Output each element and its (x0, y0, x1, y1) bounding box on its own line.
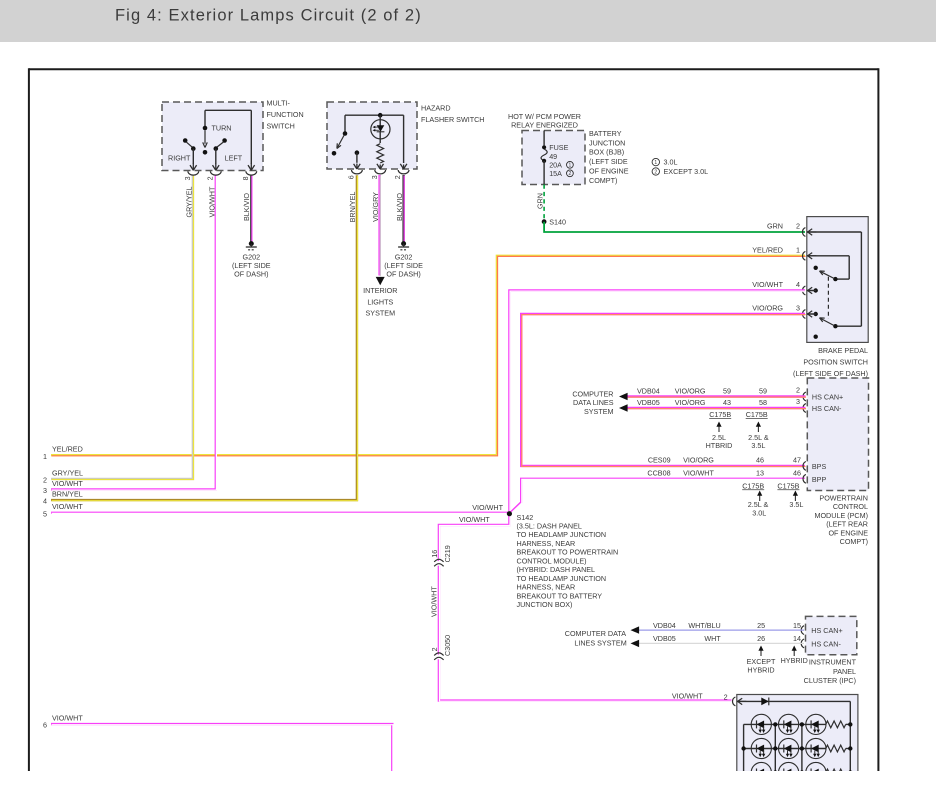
svg-text:LIGHTS: LIGHTS (367, 297, 393, 306)
svg-text:OF ENGINE: OF ENGINE (589, 167, 629, 176)
svg-text:SYSTEM: SYSTEM (584, 407, 614, 416)
svg-text:VIO/WHT: VIO/WHT (52, 479, 83, 488)
svg-text:JUNCTION BOX): JUNCTION BOX) (517, 600, 573, 609)
svg-text:DATA LINES: DATA LINES (573, 398, 614, 407)
svg-text:TURN: TURN (212, 124, 232, 133)
svg-text:2: 2 (430, 647, 439, 651)
svg-text:2: 2 (205, 176, 214, 180)
svg-text:1: 1 (796, 245, 800, 254)
svg-text:WHT: WHT (704, 634, 721, 643)
svg-text:Fig 4: Exterior Lamps Circuit: Fig 4: Exterior Lamps Circuit (2 of 2) (115, 7, 422, 25)
svg-text:BPP: BPP (812, 475, 827, 484)
svg-text:(LEFT SIDE: (LEFT SIDE (589, 157, 628, 166)
svg-text:VIO/ORG: VIO/ORG (675, 398, 706, 407)
svg-text:VIO/WHT: VIO/WHT (430, 586, 439, 617)
svg-text:YEL/RED: YEL/RED (752, 245, 783, 254)
svg-text:4: 4 (43, 497, 47, 506)
svg-text:VDB05: VDB05 (653, 634, 676, 643)
svg-text:14: 14 (793, 634, 801, 643)
svg-text:SWITCH: SWITCH (267, 122, 295, 131)
svg-text:3.0L: 3.0L (752, 509, 766, 518)
svg-text:S140: S140 (549, 218, 566, 227)
svg-text:HARNESS, NEAR: HARNESS, NEAR (517, 583, 576, 592)
svg-text:2: 2 (43, 476, 47, 485)
svg-text:C175B: C175B (746, 410, 768, 419)
svg-text:15A: 15A (549, 169, 562, 178)
svg-text:4: 4 (796, 280, 800, 289)
svg-text:INTERIOR: INTERIOR (363, 286, 397, 295)
svg-text:JUNCTION: JUNCTION (589, 138, 625, 147)
svg-text:2: 2 (393, 175, 402, 179)
svg-text:2: 2 (796, 386, 800, 395)
svg-text:HS CAN+: HS CAN+ (812, 393, 843, 402)
svg-text:MODULE (PCM): MODULE (PCM) (814, 511, 868, 520)
svg-text:16: 16 (430, 550, 439, 558)
svg-text:VIO/ORG: VIO/ORG (683, 456, 714, 465)
svg-text:3.0L: 3.0L (664, 158, 678, 167)
svg-text:BREAKOUT TO BATTERY: BREAKOUT TO BATTERY (517, 591, 603, 600)
svg-text:CONTROL MODULE): CONTROL MODULE) (517, 556, 587, 565)
svg-text:PANEL: PANEL (833, 667, 856, 676)
svg-text:RELAY ENERGIZED: RELAY ENERGIZED (511, 120, 578, 129)
svg-text:BRN/YEL: BRN/YEL (348, 192, 357, 223)
svg-text:VIO/WHT: VIO/WHT (672, 691, 703, 700)
svg-text:3: 3 (370, 175, 379, 179)
svg-text:VDB05: VDB05 (637, 398, 660, 407)
svg-text:SYSTEM: SYSTEM (366, 309, 396, 318)
svg-text:VIO/WHT: VIO/WHT (683, 469, 714, 478)
svg-text:COMPT): COMPT) (840, 537, 868, 546)
svg-text:TO HEADLAMP JUNCTION: TO HEADLAMP JUNCTION (517, 574, 607, 583)
svg-text:HARNESS, NEAR: HARNESS, NEAR (517, 539, 576, 548)
svg-text:INSTRUMENT: INSTRUMENT (809, 658, 857, 667)
svg-text:3.5L: 3.5L (751, 441, 765, 450)
svg-text:VIO/WHT: VIO/WHT (52, 714, 83, 723)
svg-text:46: 46 (793, 469, 801, 478)
svg-text:CLUSTER (IPC): CLUSTER (IPC) (804, 676, 856, 685)
svg-text:C175B: C175B (777, 481, 799, 490)
svg-text:1: 1 (43, 452, 47, 461)
svg-text:HYBRID: HYBRID (747, 665, 774, 674)
svg-text:LEFT: LEFT (225, 153, 243, 162)
svg-text:2: 2 (796, 222, 800, 231)
svg-text:GRY/YEL: GRY/YEL (184, 186, 193, 217)
svg-text:HTBRID: HTBRID (706, 441, 733, 450)
svg-text:COMPT): COMPT) (589, 176, 617, 185)
svg-text:BOX (BJB): BOX (BJB) (589, 148, 624, 157)
svg-text:C175B: C175B (709, 410, 731, 419)
svg-text:FUSE: FUSE (549, 143, 568, 152)
svg-text:26: 26 (757, 634, 765, 643)
svg-text:EXCEPT 3.0L: EXCEPT 3.0L (664, 167, 709, 176)
svg-text:COMPUTER: COMPUTER (572, 389, 613, 398)
svg-text:BRAKE PEDAL: BRAKE PEDAL (818, 346, 868, 355)
svg-text:BATTERY: BATTERY (589, 129, 622, 138)
svg-text:TO HEADLAMP JUNCTION: TO HEADLAMP JUNCTION (517, 530, 607, 539)
svg-text:CONTROL: CONTROL (833, 502, 868, 511)
svg-text:POSITION SWITCH: POSITION SWITCH (803, 358, 868, 367)
svg-text:1: 1 (569, 163, 572, 169)
svg-text:MULTI-: MULTI- (267, 99, 291, 108)
svg-text:3: 3 (796, 304, 800, 313)
svg-text:C219: C219 (443, 545, 452, 562)
svg-text:(3.5L: DASH PANEL: (3.5L: DASH PANEL (517, 522, 582, 531)
svg-text:C175B: C175B (742, 481, 764, 490)
svg-text:C3050: C3050 (443, 635, 452, 656)
svg-text:S142: S142 (517, 513, 534, 522)
svg-text:FLASHER SWITCH: FLASHER SWITCH (421, 115, 485, 124)
svg-text:VIO/WHT: VIO/WHT (752, 280, 783, 289)
svg-text:6: 6 (43, 721, 47, 730)
svg-text:6: 6 (347, 175, 356, 179)
svg-text:BLK/VIO: BLK/VIO (242, 193, 251, 221)
svg-text:OF DASH): OF DASH) (234, 270, 268, 279)
svg-text:3: 3 (796, 397, 800, 406)
svg-text:13: 13 (756, 469, 764, 478)
svg-text:25: 25 (757, 621, 765, 630)
svg-text:VDB04: VDB04 (637, 387, 660, 396)
svg-text:(HYBRID: DASH PANEL: (HYBRID: DASH PANEL (517, 565, 596, 574)
svg-text:1: 1 (654, 160, 657, 166)
svg-text:59: 59 (723, 387, 731, 396)
svg-text:GRY/YEL: GRY/YEL (52, 468, 83, 477)
svg-text:VIO/ORG: VIO/ORG (752, 304, 783, 313)
svg-text:HAZARD: HAZARD (421, 104, 451, 113)
svg-text:VIO/WHT: VIO/WHT (207, 186, 216, 217)
svg-text:YEL/RED: YEL/RED (52, 445, 83, 454)
svg-text:46: 46 (756, 456, 764, 465)
svg-text:5: 5 (43, 509, 47, 518)
svg-text:OF DASH): OF DASH) (386, 270, 420, 279)
svg-text:GRN: GRN (535, 193, 544, 209)
svg-text:CES09: CES09 (648, 456, 671, 465)
svg-text:VDB04: VDB04 (653, 621, 676, 630)
svg-text:VIO/WHT: VIO/WHT (472, 503, 503, 512)
svg-text:LINES SYSTEM: LINES SYSTEM (574, 638, 626, 647)
svg-text:OF ENGINE: OF ENGINE (828, 528, 868, 537)
svg-text:HS CAN-: HS CAN- (811, 639, 841, 648)
svg-text:RIGHT: RIGHT (168, 153, 191, 162)
svg-text:BRN/YEL: BRN/YEL (52, 490, 83, 499)
svg-text:POWERTRAIN: POWERTRAIN (819, 493, 868, 502)
svg-text:HYBRID: HYBRID (781, 656, 808, 665)
svg-text:2: 2 (654, 169, 657, 175)
svg-text:8: 8 (241, 176, 250, 180)
svg-text:3.5L: 3.5L (789, 500, 803, 509)
svg-text:BPS: BPS (812, 462, 827, 471)
svg-text:43: 43 (723, 398, 731, 407)
svg-text:WHT/BLU: WHT/BLU (688, 621, 720, 630)
svg-text:2: 2 (569, 171, 572, 177)
svg-text:GRN: GRN (767, 222, 783, 231)
svg-text:58: 58 (759, 398, 767, 407)
svg-text:HS CAN-: HS CAN- (812, 404, 842, 413)
svg-text:COMPUTER DATA: COMPUTER DATA (565, 629, 626, 638)
svg-text:BREAKOUT TO POWERTRAIN: BREAKOUT TO POWERTRAIN (517, 548, 619, 557)
svg-text:HS CAN+: HS CAN+ (811, 626, 842, 635)
svg-text:2: 2 (724, 693, 728, 702)
svg-text:CCB08: CCB08 (647, 469, 670, 478)
svg-text:3: 3 (43, 486, 47, 495)
svg-text:(LEFT REAR: (LEFT REAR (826, 520, 868, 529)
svg-text:(LEFT SIDE OF DASH): (LEFT SIDE OF DASH) (793, 369, 868, 378)
svg-text:VIO/ORG: VIO/ORG (675, 387, 706, 396)
svg-text:FUNCTION: FUNCTION (267, 110, 304, 119)
svg-text:47: 47 (793, 456, 801, 465)
svg-text:VIO/GRY: VIO/GRY (371, 192, 380, 222)
svg-text:3: 3 (183, 176, 192, 180)
svg-text:BLK/VIO: BLK/VIO (395, 193, 404, 221)
svg-text:59: 59 (759, 387, 767, 396)
svg-text:15: 15 (793, 621, 801, 630)
svg-text:VIO/WHT: VIO/WHT (459, 515, 490, 524)
svg-text:VIO/WHT: VIO/WHT (52, 502, 83, 511)
